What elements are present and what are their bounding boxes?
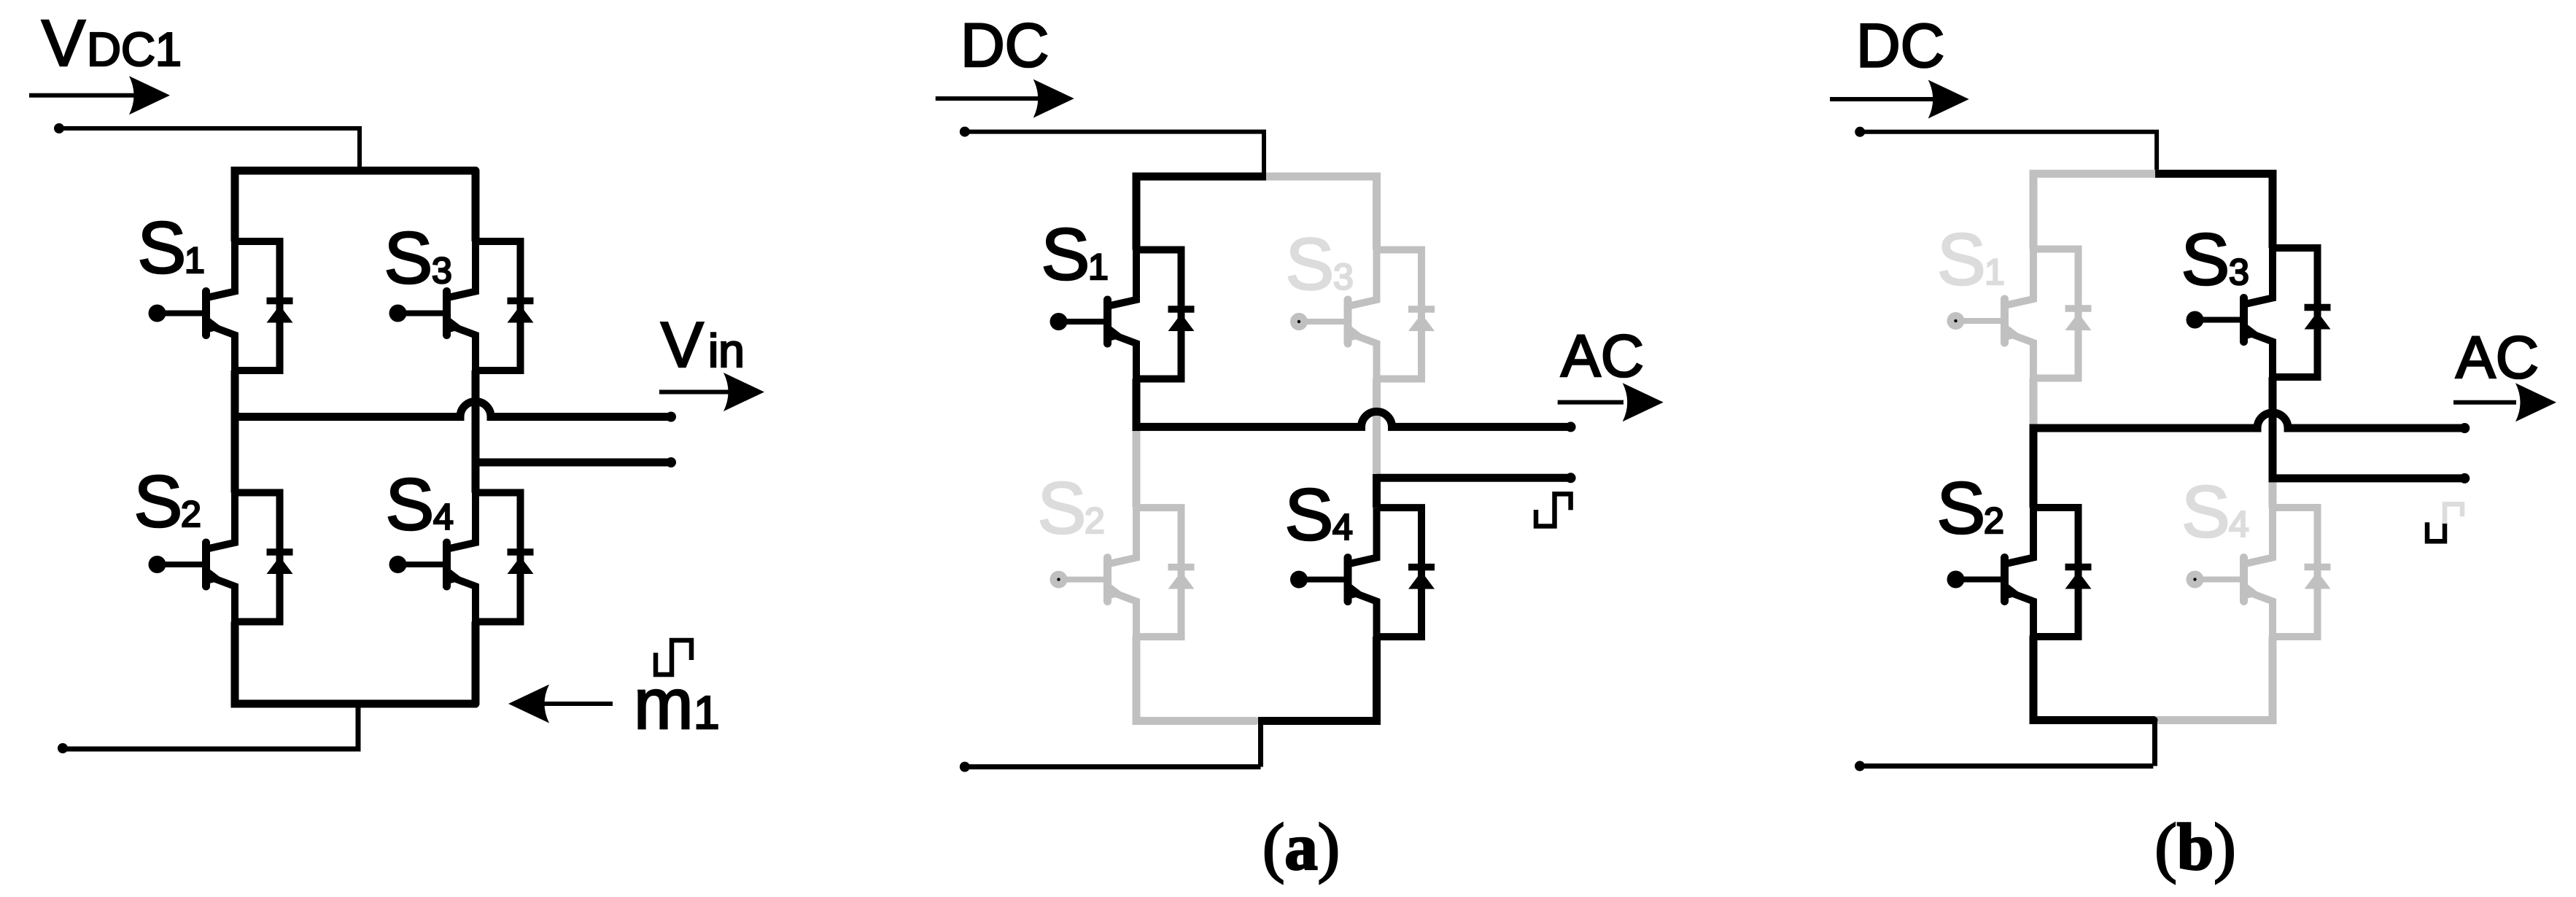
- wire lower output to Vin- terminal: [476, 459, 671, 467]
- svg-text:S: S: [1937, 467, 1986, 549]
- svg-text:S: S: [2181, 219, 2230, 300]
- wire bottom rail (S2/S4 emitters): [231, 700, 478, 708]
- wire DC negative input (b): [1860, 764, 2153, 769]
- svg-text:AC: AC: [2456, 325, 2539, 391]
- arrow Vin output direction: [659, 390, 737, 395]
- svg-text:(b): (b): [2154, 810, 2235, 884]
- transistor S4 active (a): [1290, 508, 1435, 637]
- wire S2 collector from midpoint (b): [2030, 428, 2038, 508]
- node AC upper terminal (a): [1566, 422, 1576, 432]
- transistor S1 inactive (b): [1947, 249, 2092, 378]
- svg-text:DC: DC: [961, 11, 1049, 79]
- arrow AC output direction (a): [1558, 400, 1623, 405]
- wire bottom rail to VDC1 negative terminal: [63, 704, 358, 749]
- wire S4 emitter to bottom rail (a): [1373, 637, 1381, 725]
- svg-text:S: S: [134, 461, 183, 543]
- svg-text:3: 3: [2229, 252, 2249, 292]
- wire S1 emitter to midpoint node: [231, 370, 239, 421]
- wire from VDC1+ terminal to top rail: [59, 128, 360, 173]
- svg-text:3: 3: [432, 250, 452, 291]
- wire top rail active half to S3 (b): [2155, 174, 2273, 248]
- arrow DC input direction (b): [1830, 97, 1957, 101]
- svg-text:S: S: [2181, 471, 2230, 553]
- svg-text:2: 2: [1984, 500, 2004, 541]
- wire drop from bottom rail to DC- (a): [1258, 721, 1263, 767]
- svg-text:(a): (a): [1262, 810, 1340, 884]
- wire S2 emitter to bottom rail: [231, 622, 239, 704]
- node AC lower terminal (b): [2459, 473, 2470, 484]
- svg-text:AC: AC: [1561, 323, 1644, 389]
- svg-text:S: S: [384, 217, 433, 299]
- wire S3 emitter through hop to lower output corner (b): [2273, 377, 2464, 478]
- wire top rail inactive half to S1 (b): [2033, 174, 2159, 249]
- svg-text:2: 2: [181, 494, 201, 535]
- svg-text:DC1: DC1: [87, 23, 182, 76]
- transistor S1 (IGBT with anti-parallel diode): [149, 241, 293, 370]
- svg-text:V: V: [661, 308, 704, 381]
- svg-text:S: S: [1041, 214, 1090, 295]
- transistor S2 active (b): [1947, 508, 2092, 637]
- square-wave modulation symbol low-active part (b): [2427, 522, 2445, 541]
- svg-text:1: 1: [1088, 246, 1109, 287]
- wire top rail active half to S1 (a): [1136, 176, 1266, 250]
- svg-text:4: 4: [1332, 507, 1353, 548]
- svg-text:S: S: [1038, 467, 1087, 549]
- wire top rail (S1/S3 collectors): [235, 171, 477, 241]
- transistor S3 (IGBT with anti-parallel diode): [389, 241, 534, 370]
- transistor S3 inactive (a): [1290, 250, 1435, 379]
- node Vin upper terminal: [666, 412, 676, 422]
- arrow VDC1 input direction: [29, 93, 157, 98]
- transistor S3 active (b): [2187, 248, 2331, 377]
- svg-text:2: 2: [1085, 500, 1105, 541]
- svg-text:S: S: [138, 207, 187, 289]
- transistor S2 inactive (a): [1050, 508, 1195, 637]
- svg-text:in: in: [708, 325, 745, 377]
- svg-text:1: 1: [185, 240, 205, 281]
- node DC negative input terminal (a): [960, 762, 970, 772]
- wire from DC+ terminal to top rail (a): [965, 132, 1264, 176]
- svg-text:1: 1: [1985, 252, 2005, 292]
- wire S3 emitter to S4 collector column: [472, 370, 480, 493]
- wire DC negative input (a): [965, 764, 1261, 769]
- wire S3 collector column from top rail: [472, 171, 480, 241]
- node DC positive input terminal (a): [960, 127, 970, 137]
- wire from DC+ terminal to top rail (b): [1860, 132, 2157, 176]
- wire lower output line (a): [1377, 474, 1571, 482]
- wire midpoint rail to AC output with hop (b): [2030, 413, 2465, 428]
- wire S4 collector column inactive (b): [2269, 476, 2277, 508]
- wire midpoint rail to AC output with hop (a): [1133, 411, 1571, 427]
- transistor S4 (IGBT with anti-parallel diode): [389, 493, 534, 622]
- svg-text:4: 4: [433, 497, 454, 537]
- wire bottom rail active half with drop to DC- (a): [1258, 717, 1379, 725]
- node DC positive input terminal (b): [1855, 127, 1865, 137]
- transistor S1 active (a): [1050, 250, 1195, 379]
- svg-text:S: S: [1937, 219, 1986, 300]
- transistor S4 inactive (b): [2187, 508, 2331, 637]
- node AC upper terminal (b): [2459, 423, 2470, 433]
- svg-text:m: m: [634, 664, 694, 744]
- square-wave modulation symbol high part grayed (b): [2445, 504, 2462, 524]
- square-wave modulation symbol (a): [1536, 494, 1571, 526]
- wire S1 emitter inactive (b): [2030, 378, 2038, 429]
- wire S2 emitter and bottom rail inactive half (a): [1136, 637, 1255, 721]
- svg-text:S: S: [1285, 474, 1334, 556]
- svg-text:S: S: [1286, 224, 1335, 306]
- wire top rail inactive half to S3 (a): [1262, 176, 1377, 250]
- svg-text:3: 3: [1333, 257, 1354, 298]
- arrow DC input direction (a): [936, 96, 1062, 101]
- square-wave modulation symbol m1: [656, 640, 691, 675]
- wire midpoint to S2 collector: [231, 417, 239, 493]
- wire S4 emitter to bottom rail: [472, 622, 480, 704]
- node DC negative input terminal (b): [1855, 761, 1865, 771]
- svg-text:4: 4: [2229, 504, 2249, 545]
- svg-text:1: 1: [694, 686, 720, 739]
- node VDC1 negative input terminal: [58, 743, 68, 753]
- node VDC1 positive input terminal: [54, 123, 64, 133]
- node AC lower terminal (a): [1566, 473, 1576, 483]
- wire S4 collector corner (a): [1373, 474, 1381, 508]
- wire drop from bottom rail to DC- (b): [2152, 721, 2157, 766]
- wire S4 emitter and bottom rail inactive half (b): [2157, 637, 2273, 721]
- svg-text:V: V: [42, 7, 85, 80]
- arrow AC output direction (b): [2453, 400, 2516, 405]
- svg-text:S: S: [386, 464, 435, 545]
- transistor S2 (IGBT with anti-parallel diode): [149, 493, 293, 622]
- wire S2 collector column inactive (a): [1133, 427, 1141, 508]
- arrow m1 modulation input: [543, 702, 613, 706]
- wire S2 emitter and bottom rail active half with drop (b): [2033, 637, 2154, 721]
- wire midpoint rail to Vin+ with hop over S3/S4 column: [231, 402, 672, 417]
- svg-text:DC: DC: [1856, 11, 1944, 79]
- wire S3 emitter column inactive (a): [1373, 379, 1381, 476]
- wire S1 emitter to midpoint (a): [1133, 379, 1141, 431]
- node Vin lower terminal: [666, 457, 676, 467]
